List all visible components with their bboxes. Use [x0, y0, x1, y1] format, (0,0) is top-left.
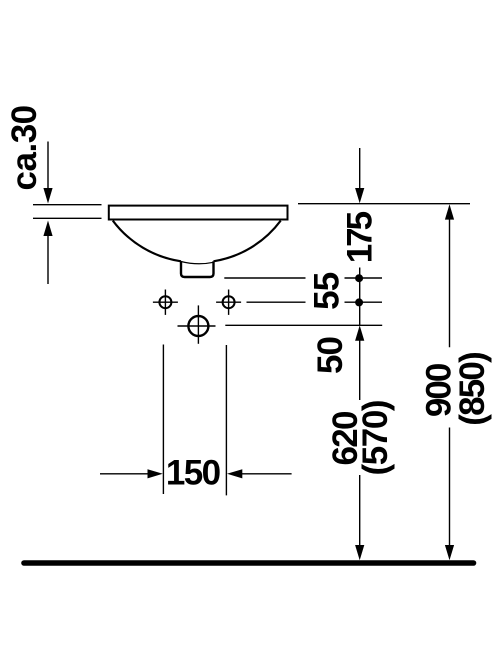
- 150 right arrow line: [241, 473, 292, 475]
- svg-text:150: 150: [166, 453, 221, 492]
- outlet leader line: [224, 277, 305, 279]
- ca.30 down arrowhead: [43, 188, 52, 204]
- faucet hole right crosshair: [216, 301, 241, 303]
- countertop top line: [33, 204, 102, 206]
- drain outlet inner edge: [181, 262, 214, 264]
- 900 down arrowhead: [445, 545, 454, 560]
- 150 right arrowhead: [227, 469, 242, 478]
- svg-text:(570): (570): [356, 401, 395, 476]
- svg-text:175: 175: [340, 211, 379, 263]
- dim line 620 lower: [359, 475, 361, 547]
- bowl right arc: [214, 221, 281, 262]
- bowl left arc: [113, 221, 181, 262]
- dot at faucet level: [355, 298, 363, 306]
- ca.30 up arrowhead: [43, 221, 52, 237]
- 900 up arrowhead: [445, 204, 454, 219]
- top reference line: [298, 203, 470, 205]
- faucet hole right circle: [223, 296, 235, 308]
- 150 right extension line: [225, 345, 227, 495]
- faucet leader line: [247, 301, 306, 303]
- 150 left arrowhead: [148, 469, 163, 478]
- drain hole crosshair: [178, 325, 216, 327]
- basin rim: [109, 206, 288, 220]
- 175 down arrowhead: [355, 188, 364, 203]
- ca.30 upper extension line: [47, 142, 49, 190]
- 150 left extension line: [162, 345, 164, 495]
- 150 left arrow line: [100, 473, 149, 475]
- countertop bottom line: [33, 217, 102, 219]
- dim line through dots: [359, 268, 361, 326]
- svg-text:55: 55: [307, 272, 346, 310]
- svg-text:50: 50: [311, 337, 350, 374]
- dot at outlet level: [355, 274, 363, 282]
- 50 up arrowhead: [355, 325, 364, 340]
- dim line 900 upper: [449, 218, 451, 347]
- drain hole circle: [188, 316, 208, 336]
- dim line 620 upper: [359, 339, 361, 400]
- dim line 900 lower: [449, 428, 451, 548]
- drain level line: [225, 324, 382, 326]
- faucet hole left crosshair: [153, 301, 178, 303]
- svg-text:(850): (850): [453, 353, 492, 426]
- 620 down arrowhead: [355, 545, 364, 560]
- dim line 175 upper: [359, 148, 361, 189]
- ca.30 lower extension line: [47, 234, 49, 284]
- drain outlet: [181, 261, 214, 277]
- floor line: [24, 560, 474, 566]
- svg-text:ca.30: ca.30: [5, 105, 44, 190]
- faucet hole left circle: [159, 296, 171, 308]
